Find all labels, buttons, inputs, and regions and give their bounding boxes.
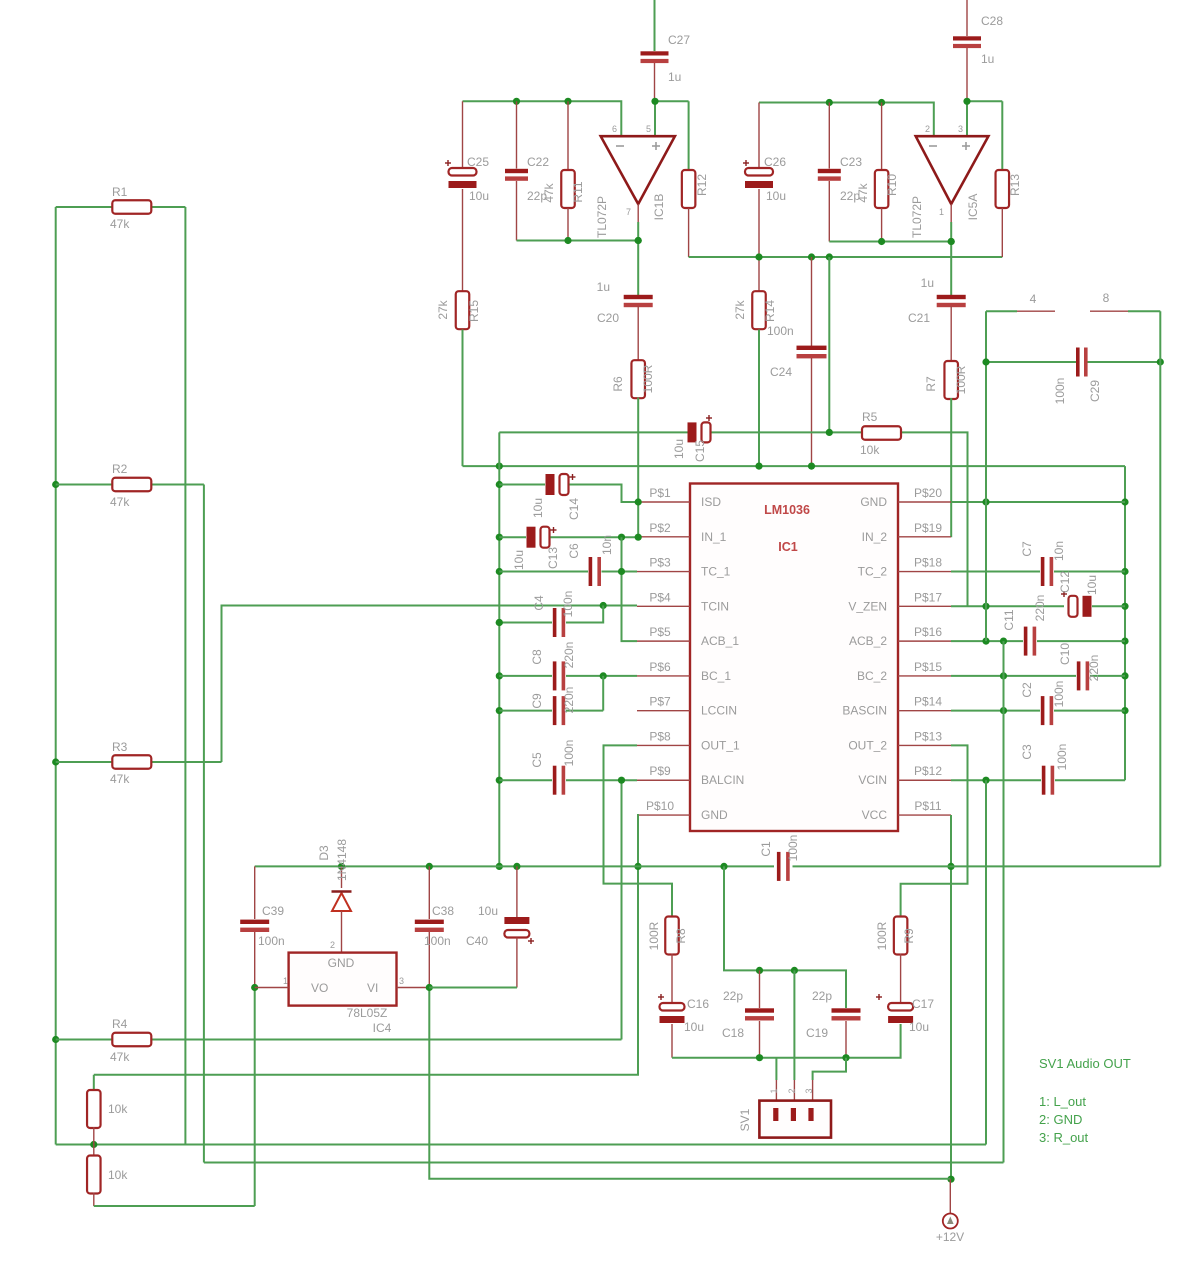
capacitor C21 1u bbox=[937, 295, 966, 299]
capacitor C6 10n with wires bbox=[499, 571, 588, 573]
svg-text:C15: C15 bbox=[693, 440, 707, 462]
svg-text:LCCIN: LCCIN bbox=[701, 704, 737, 718]
capacitor C1 100n bbox=[777, 852, 781, 881]
svg-text:R8: R8 bbox=[674, 928, 688, 944]
resistor R8 100R with leads bbox=[665, 917, 679, 955]
wire TCIN row to pin bbox=[603, 605, 637, 607]
capacitor C29 100n bbox=[1076, 348, 1080, 377]
pin P$9 BALCIN stub bbox=[637, 779, 690, 781]
wire OUT_1 to R8 path bbox=[604, 745, 673, 917]
wire GND rail upper (R15 to right rail) bbox=[463, 465, 1126, 467]
junction dot BALCIN row bbox=[618, 777, 625, 784]
wire SV1 pin3 jog bbox=[813, 1058, 846, 1080]
svg-text:VI: VI bbox=[367, 981, 378, 995]
svg-text:10n: 10n bbox=[600, 535, 614, 555]
capacitor C5 100n with wires bbox=[499, 779, 552, 781]
svg-text:27k: 27k bbox=[733, 299, 747, 319]
pin P$8 OUT_1 stub bbox=[637, 744, 690, 746]
svg-text:R6: R6 bbox=[611, 376, 625, 392]
svg-text:TL072P: TL072P bbox=[595, 196, 609, 238]
wire VI column down to +12V rail bbox=[429, 988, 950, 1179]
svg-text:100n: 100n bbox=[786, 835, 800, 862]
capacitor C7 10n bbox=[1041, 557, 1045, 586]
diode D3 1N4148 bbox=[341, 866, 343, 888]
IC IC1 LM1036 body bbox=[690, 484, 898, 832]
svg-text:C6: C6 bbox=[567, 543, 581, 559]
svg-text:SV1 Audio OUT: SV1 Audio OUT bbox=[1039, 1056, 1131, 1071]
pin P$10 GND stub bbox=[637, 814, 690, 816]
wire C13 branch down to ACB_1 bbox=[622, 537, 638, 641]
svg-text:P$19: P$19 bbox=[914, 521, 942, 535]
svg-text:1N4148: 1N4148 bbox=[335, 839, 349, 881]
svg-text:P$2: P$2 bbox=[649, 521, 671, 535]
wire VCIN row with C3 bbox=[951, 779, 1041, 781]
junction dot R5 left bbox=[826, 429, 833, 436]
svg-text:7: 7 bbox=[626, 207, 631, 217]
wire C29 row bbox=[986, 361, 1077, 363]
svg-text:IC1: IC1 bbox=[778, 540, 798, 554]
pin stub 4 of TL072 bbox=[986, 310, 1017, 312]
svg-text:C5: C5 bbox=[530, 752, 544, 768]
pin P$14 BASCIN stub bbox=[898, 710, 951, 712]
wire VI row dot to C40 corner bbox=[429, 987, 517, 989]
svg-text:IC1B: IC1B bbox=[652, 194, 666, 221]
capacitor C27 lead and body bbox=[654, 0, 656, 51]
wire GND branch to output caps row bbox=[724, 866, 846, 1008]
svg-text:1: 1 bbox=[939, 207, 944, 217]
svg-text:P$9: P$9 bbox=[649, 764, 671, 778]
junction dots feedback1 bbox=[564, 237, 571, 244]
svg-text:VO: VO bbox=[311, 981, 328, 995]
capacitor C15 10u polarized bbox=[688, 422, 697, 442]
svg-text:100R: 100R bbox=[647, 921, 661, 950]
svg-text:8: 8 bbox=[1103, 291, 1110, 305]
wire C21 to R7 bbox=[950, 306, 952, 362]
svg-text:3: 3 bbox=[958, 124, 963, 134]
svg-text:100n: 100n bbox=[1055, 744, 1069, 771]
svg-text:R4: R4 bbox=[112, 1017, 128, 1031]
junction dot divider mid bbox=[90, 1141, 97, 1148]
junction dot P$10 ground bbox=[634, 863, 641, 870]
svg-text:IC5A: IC5A bbox=[966, 194, 980, 221]
capacitor C20 1u bbox=[624, 295, 653, 299]
pin P$6 BC_1 stub bbox=[637, 675, 690, 677]
svg-text:6: 6 bbox=[612, 124, 617, 134]
svg-text:P$16: P$16 bbox=[914, 625, 942, 639]
resistor R4 47k with leads bbox=[56, 1039, 112, 1041]
svg-text:2: 2 bbox=[925, 124, 930, 134]
svg-text:P$18: P$18 bbox=[914, 556, 942, 570]
wire IC1B feedback (C22/R11 bottoms to output) bbox=[517, 240, 639, 242]
junction dots bias line bbox=[755, 253, 762, 260]
svg-text:GND: GND bbox=[860, 495, 887, 509]
svg-text:BALCIN: BALCIN bbox=[701, 773, 744, 787]
svg-text:220n: 220n bbox=[1087, 655, 1101, 682]
wire GND horizontal (C39 to C1) bbox=[255, 865, 774, 867]
svg-text:100n: 100n bbox=[1052, 681, 1066, 708]
junction dots feedback2 bbox=[878, 238, 885, 245]
svg-text:27k: 27k bbox=[436, 299, 450, 319]
wire bias line R12 to R13 bottoms bbox=[689, 256, 1003, 258]
svg-text:3: 3 bbox=[399, 976, 404, 986]
svg-text:10u: 10u bbox=[512, 550, 526, 570]
svg-text:P$14: P$14 bbox=[914, 695, 942, 709]
svg-text:P$4: P$4 bbox=[649, 590, 671, 604]
svg-text:C28: C28 bbox=[981, 14, 1003, 28]
capacitor C18 22p with leads bbox=[759, 970, 761, 1008]
junction dot TCIN/C4 bbox=[600, 602, 607, 609]
svg-text:OUT_1: OUT_1 bbox=[701, 738, 740, 752]
capacitor C38 100n with leads bbox=[428, 866, 430, 919]
svg-text:C13: C13 bbox=[546, 547, 560, 569]
IC IC4 78L05Z body bbox=[289, 953, 397, 1006]
wire IC5A output to C21 bbox=[950, 204, 952, 222]
wire TC_2 row with C7 bbox=[951, 571, 1040, 573]
junction dot BASCIN row bbox=[1000, 707, 1007, 714]
svg-text:100R: 100R bbox=[641, 364, 655, 393]
wire P$20 GND row bbox=[951, 501, 1125, 503]
wire audio out row (C16 to C17 bottoms) bbox=[672, 1024, 901, 1058]
svg-text:C12: C12 bbox=[1058, 571, 1072, 593]
svg-text:VCIN: VCIN bbox=[858, 773, 887, 787]
wire C27/+input to R12 top (rail segment) bbox=[655, 100, 689, 102]
svg-text:BASCIN: BASCIN bbox=[842, 704, 887, 718]
svg-text:10n: 10n bbox=[1052, 541, 1066, 561]
svg-text:C26: C26 bbox=[764, 155, 786, 169]
svg-text:C1: C1 bbox=[759, 841, 773, 857]
junction dots ACB_2 row bbox=[982, 638, 989, 645]
junction dots right rail bbox=[1121, 498, 1128, 505]
capacitor C25 (10u) polarized bbox=[462, 101, 464, 168]
junction dot C28/+in bbox=[963, 98, 970, 105]
svg-text:IC4: IC4 bbox=[373, 1021, 392, 1035]
wire OUT_2 to R9 path bbox=[901, 745, 968, 917]
junction dots VCC column bbox=[947, 863, 954, 870]
junction dots C29 row bbox=[982, 358, 989, 365]
svg-text:IN_1: IN_1 bbox=[701, 530, 727, 544]
svg-text:C29: C29 bbox=[1088, 380, 1102, 402]
junction dot VI node bbox=[426, 984, 433, 991]
pin P$11 VCC stub bbox=[898, 814, 951, 816]
svg-text:ACB_1: ACB_1 bbox=[701, 634, 739, 648]
svg-text:4: 4 bbox=[1030, 292, 1037, 306]
pin P$5 ACB_1 stub bbox=[637, 640, 690, 642]
capacitor C12 10u polarized bbox=[1069, 596, 1078, 617]
capacitor C2 100n bbox=[1041, 696, 1045, 725]
svg-text:V_ZEN: V_ZEN bbox=[848, 599, 887, 613]
svg-text:C14: C14 bbox=[567, 498, 581, 520]
wire V+ column (pin8) down to VCC wire bbox=[1159, 311, 1161, 866]
svg-text:R13: R13 bbox=[1008, 174, 1022, 196]
capacitor C9 220n with wires bbox=[499, 710, 552, 712]
wire chain rail lower bbox=[204, 1162, 1004, 1164]
svg-text:VCC: VCC bbox=[862, 808, 888, 822]
junction dots output caps GND row bbox=[756, 967, 763, 974]
svg-text:220n: 220n bbox=[562, 642, 576, 669]
svg-text:ISD: ISD bbox=[701, 495, 721, 509]
wire x986 column C29/GND to ACB_2 bbox=[985, 311, 987, 641]
svg-text:R12: R12 bbox=[695, 174, 709, 196]
wire R7 down to IN_2 pin bbox=[950, 398, 952, 537]
resistor R7 100R bbox=[944, 361, 958, 399]
wire GND right rail vertical bbox=[1124, 466, 1126, 780]
svg-text:C17: C17 bbox=[912, 997, 934, 1011]
svg-text:P$8: P$8 bbox=[649, 729, 671, 743]
wire R4 to BALCIN column bbox=[621, 782, 623, 1040]
junction dots GND bus bbox=[496, 481, 503, 488]
svg-text:1u: 1u bbox=[921, 276, 934, 290]
capacitor C14 10u polarized with wires bbox=[499, 484, 545, 486]
junction dot C6/ACB branch bbox=[618, 568, 625, 575]
svg-text:3: R_out: 3: R_out bbox=[1039, 1130, 1089, 1145]
junction dot C4 bus bbox=[496, 619, 503, 626]
svg-text:C4: C4 bbox=[532, 595, 546, 611]
wire ACB_2 row with C11 bbox=[951, 640, 1023, 642]
svg-text:22p: 22p bbox=[812, 989, 832, 1003]
svg-text:10k: 10k bbox=[860, 443, 880, 457]
svg-text:D3: D3 bbox=[317, 845, 331, 861]
svg-text:100n: 100n bbox=[1053, 378, 1067, 405]
svg-text:R15: R15 bbox=[467, 300, 481, 322]
pin P$19 IN_2 stub bbox=[898, 536, 951, 538]
junction dots left bus bbox=[52, 481, 59, 488]
svg-text:P$17: P$17 bbox=[914, 590, 942, 604]
wire R1 right column down bbox=[184, 207, 186, 1145]
pin stub 8 of TL072 bbox=[1090, 310, 1128, 312]
svg-text:100R: 100R bbox=[875, 921, 889, 950]
svg-text:P$12: P$12 bbox=[914, 764, 942, 778]
pin P$15 BC_2 stub bbox=[898, 675, 951, 677]
wire IC1B +in drop bbox=[654, 101, 656, 136]
svg-text:47k: 47k bbox=[110, 495, 130, 509]
svg-text:2: 2 bbox=[787, 1088, 797, 1093]
wire top rail right segment (C26/C23/R10 to IC5A -in) bbox=[759, 103, 934, 137]
wire IC5A feedback (C23/R10 bottoms to output) bbox=[829, 241, 951, 243]
svg-text:1u: 1u bbox=[668, 70, 681, 84]
svg-text:10u: 10u bbox=[1085, 575, 1099, 595]
resistor 10k upper with leads bbox=[93, 1075, 95, 1091]
pin P$1 ISD stub bbox=[637, 501, 690, 503]
pin P$16 ACB_2 stub bbox=[898, 640, 951, 642]
svg-text:R7: R7 bbox=[924, 376, 938, 392]
svg-text:ACB_2: ACB_2 bbox=[849, 634, 887, 648]
junction dot VO node bbox=[251, 984, 258, 991]
resistor R15 27k bbox=[456, 291, 470, 329]
svg-text:P$1: P$1 bbox=[649, 486, 671, 500]
capacitor C19 22p bbox=[832, 1008, 861, 1012]
svg-text:LM1036: LM1036 bbox=[764, 503, 810, 517]
resistor R2 47k with leads bbox=[56, 484, 112, 486]
junction dot P$20/986 bbox=[982, 498, 989, 505]
svg-text:C2: C2 bbox=[1020, 682, 1034, 698]
supply +12V symbol bbox=[949, 1179, 951, 1213]
junction dots audio out row bbox=[756, 1054, 763, 1061]
capacitor C40 10u polarized with leads bbox=[516, 866, 518, 917]
resistor 10k lower with leads bbox=[93, 1145, 95, 1157]
wire R6 down to IN_1 net bbox=[637, 398, 639, 503]
pin P$7 LCCIN stub bbox=[637, 710, 690, 712]
svg-text:78L05Z: 78L05Z bbox=[347, 1006, 388, 1020]
svg-text:R9: R9 bbox=[902, 928, 916, 944]
svg-text:10u: 10u bbox=[469, 189, 489, 203]
svg-text:47k: 47k bbox=[856, 182, 870, 202]
svg-text:TC_1: TC_1 bbox=[701, 565, 731, 579]
wire IC5A +in drop bbox=[966, 101, 968, 136]
svg-text:P$20: P$20 bbox=[914, 486, 942, 500]
junction dots GND rail upper bbox=[496, 463, 503, 470]
svg-text:R1: R1 bbox=[112, 185, 128, 199]
svg-text:10k: 10k bbox=[108, 1168, 128, 1182]
pin P$4 TCIN stub bbox=[637, 605, 690, 607]
wire SV1 pin2 drop bbox=[793, 970, 795, 1080]
svg-text:10u: 10u bbox=[766, 189, 786, 203]
svg-text:1: 1 bbox=[283, 976, 288, 986]
svg-text:2: GND: 2: GND bbox=[1039, 1112, 1082, 1127]
svg-text:C3: C3 bbox=[1020, 744, 1034, 760]
pin stub VI bbox=[397, 987, 430, 989]
capacitor C10 220n bbox=[1077, 661, 1081, 690]
svg-text:47k: 47k bbox=[110, 772, 130, 786]
wire C20 to R6 bbox=[637, 306, 639, 361]
capacitor C23 22p bbox=[828, 103, 830, 169]
resistor R5 10k bbox=[862, 426, 901, 440]
junction dot VCIN row bbox=[982, 777, 989, 784]
resistor R6 100R bbox=[631, 360, 645, 398]
wire SV1 pin1 drop bbox=[775, 1058, 777, 1080]
svg-text:BC_2: BC_2 bbox=[857, 669, 887, 683]
svg-text:10u: 10u bbox=[684, 1020, 704, 1034]
capacitor C3 100n bbox=[1042, 766, 1046, 795]
svg-text:3: 3 bbox=[804, 1088, 814, 1093]
svg-text:100n: 100n bbox=[258, 934, 285, 948]
svg-text:R2: R2 bbox=[112, 462, 128, 476]
svg-text:1: L_out: 1: L_out bbox=[1039, 1094, 1086, 1109]
capacitor C39 100n with leads bbox=[254, 866, 256, 919]
wire V_ZEN row with C12 bbox=[951, 605, 1064, 607]
svg-text:1u: 1u bbox=[597, 280, 610, 294]
op-amp IC5A (TL072P) bbox=[916, 136, 989, 204]
svg-text:C24: C24 bbox=[770, 365, 792, 379]
pin P$18 TC_2 stub bbox=[898, 571, 951, 573]
svg-text:R3: R3 bbox=[112, 740, 128, 754]
svg-text:P$15: P$15 bbox=[914, 660, 942, 674]
IC5A input polarity marks bbox=[929, 145, 937, 147]
svg-text:C19: C19 bbox=[806, 1026, 828, 1040]
junction dot BC_2 row bbox=[1000, 672, 1007, 679]
pin P$13 OUT_2 stub bbox=[898, 744, 951, 746]
svg-text:TCIN: TCIN bbox=[701, 599, 729, 613]
wire C28/+input to R13 top (rail segment) bbox=[967, 100, 1002, 102]
svg-text:C22: C22 bbox=[527, 155, 549, 169]
wire R3 to TCIN long run bbox=[222, 606, 604, 763]
pin P$12 VCIN stub bbox=[898, 779, 951, 781]
svg-text:+12V: +12V bbox=[936, 1230, 964, 1244]
svg-text:P$6: P$6 bbox=[649, 660, 671, 674]
svg-text:P$3: P$3 bbox=[649, 556, 671, 570]
IC1B input polarity marks bbox=[616, 145, 624, 147]
resistor R12 47k with leads bbox=[688, 101, 690, 170]
svg-text:P$13: P$13 bbox=[914, 729, 942, 743]
svg-text:10u: 10u bbox=[909, 1020, 929, 1034]
svg-text:10u: 10u bbox=[531, 498, 545, 518]
svg-text:C39: C39 bbox=[262, 904, 284, 918]
svg-text:10u: 10u bbox=[672, 439, 686, 459]
wire V_ZEN filter row (C15 R5) bbox=[499, 431, 694, 433]
wire divider mid rail bbox=[56, 1144, 986, 1146]
svg-text:1u: 1u bbox=[981, 52, 994, 66]
svg-text:220n: 220n bbox=[562, 687, 576, 714]
resistor R13 47k with leads bbox=[1001, 101, 1003, 170]
wire VCC pin down to +12V column bbox=[950, 815, 952, 1179]
wire top rail left segment (C25/C22/R11 to IC1B -in) bbox=[463, 101, 622, 136]
svg-text:C27: C27 bbox=[668, 33, 690, 47]
wire C40 bottom to VI row bbox=[429, 987, 517, 989]
resistor R1 47k with leads bbox=[56, 206, 112, 208]
svg-text:100n: 100n bbox=[767, 324, 794, 338]
svg-text:C18: C18 bbox=[722, 1026, 744, 1040]
svg-text:47k: 47k bbox=[542, 182, 556, 202]
svg-text:BC_1: BC_1 bbox=[701, 669, 731, 683]
svg-text:C40: C40 bbox=[466, 934, 488, 948]
wire BC_1 to LCCIN branch bbox=[602, 676, 604, 711]
svg-text:TC_2: TC_2 bbox=[858, 565, 888, 579]
wire GND pin P$10 down to ground rail bbox=[94, 815, 638, 1075]
svg-text:10u: 10u bbox=[478, 904, 498, 918]
svg-text:IN_2: IN_2 bbox=[862, 530, 888, 544]
svg-text:R11: R11 bbox=[571, 181, 585, 202]
wire bias line branch down to V_ZEN filter bbox=[828, 257, 830, 432]
svg-text:P$5: P$5 bbox=[649, 625, 671, 639]
capacitor C13 10u polarized with wires bbox=[499, 536, 526, 538]
wire BC_2 row with C10 bbox=[951, 675, 1076, 677]
svg-text:GND: GND bbox=[701, 808, 728, 822]
capacitor C11 220n bbox=[1024, 627, 1028, 656]
svg-text:100R: 100R bbox=[954, 365, 968, 394]
capacitor C16 10u polarized bbox=[660, 1003, 685, 1011]
svg-text:47k: 47k bbox=[110, 217, 130, 231]
resistor R9 100R with leads bbox=[894, 917, 908, 955]
resistor R3 47k with leads bbox=[56, 761, 112, 763]
capacitor C17 10u polarized bbox=[888, 1003, 913, 1011]
svg-text:C9: C9 bbox=[530, 693, 544, 709]
wire R2 right column down bbox=[203, 485, 205, 1163]
svg-text:5: 5 bbox=[646, 124, 651, 134]
svg-text:100n: 100n bbox=[424, 934, 451, 948]
svg-text:GND: GND bbox=[328, 956, 355, 970]
svg-text:C25: C25 bbox=[467, 155, 489, 169]
capacitor C26 (10u) polarized bbox=[758, 103, 760, 169]
svg-text:2: 2 bbox=[330, 940, 335, 950]
svg-text:C10: C10 bbox=[1058, 643, 1072, 665]
SV1 pin bars bbox=[773, 1108, 778, 1121]
wire IC1B output to C20 bbox=[637, 204, 639, 222]
connector SV1 body bbox=[759, 1101, 831, 1138]
svg-text:C8: C8 bbox=[530, 649, 544, 665]
wire ACB/BC/BASCIN chain column down bbox=[1003, 641, 1005, 1162]
capacitor C4 100n with wires bbox=[499, 622, 552, 624]
svg-text:C23: C23 bbox=[840, 155, 862, 169]
svg-text:22p: 22p bbox=[723, 989, 743, 1003]
op-amp IC1B (TL072P) bbox=[601, 136, 675, 204]
junction dot P$1/R6 bbox=[635, 498, 642, 505]
capacitor C24 100n with leads bbox=[811, 257, 813, 346]
svg-text:C20: C20 bbox=[597, 311, 619, 325]
svg-text:C16: C16 bbox=[687, 997, 709, 1011]
pin stub VO bbox=[255, 987, 289, 989]
junction dot output IC1B node bbox=[635, 237, 642, 244]
pin P$3 TC_1 stub bbox=[637, 571, 690, 573]
svg-text:R14: R14 bbox=[763, 300, 777, 322]
